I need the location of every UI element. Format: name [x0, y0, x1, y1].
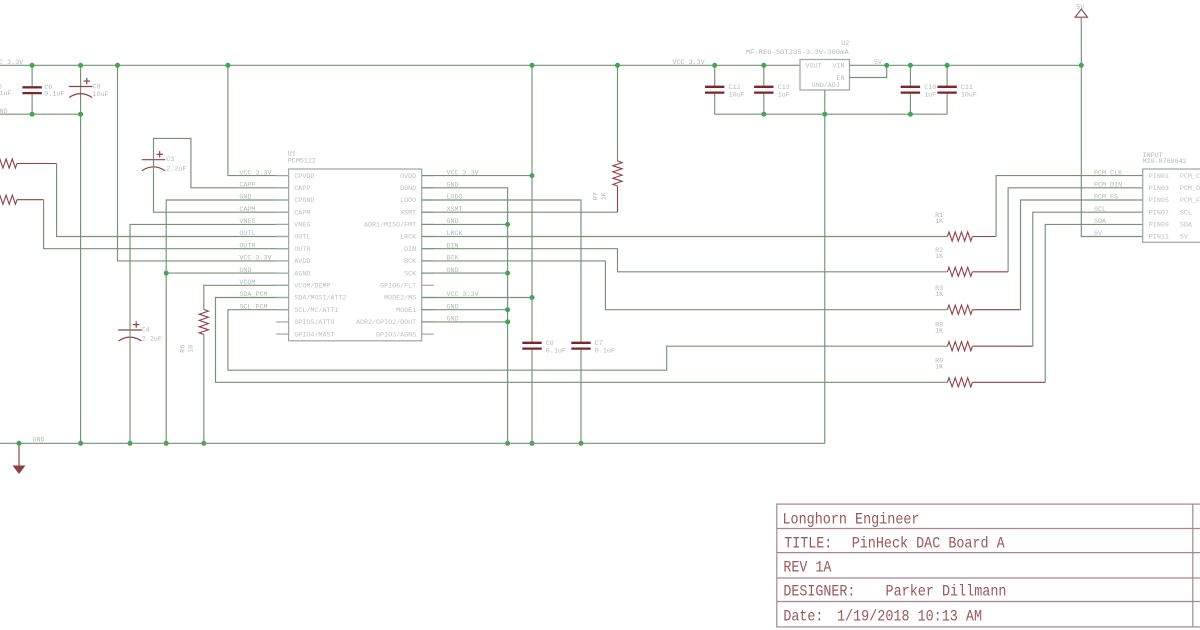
svg-text:CPGND: CPGND — [294, 197, 314, 205]
ground symbol — [18, 443, 20, 465]
svg-text:PCM_FS: PCM_FS — [1180, 197, 1200, 205]
wire EN net — [850, 65, 887, 77]
svg-text:PCM_DIN: PCM_DIN — [1180, 185, 1200, 193]
junction AGND — [164, 271, 169, 276]
wire R9 to connector — [1045, 224, 1143, 382]
wire AVDD VCC tap — [118, 65, 289, 261]
svg-text:AVDD: AVDD — [294, 258, 310, 266]
svg-text:PCM_FS: PCM_FS — [1094, 194, 1118, 202]
wire SCK GND net — [422, 272, 508, 274]
resistor left edge upper (to OUTL) — [0, 159, 17, 168]
svg-text:0.1uF: 0.1uF — [595, 348, 615, 356]
wire 5V down to connector — [1081, 17, 1142, 236]
op-amp U1 PCM5122 box — [289, 169, 422, 341]
svg-text:VOUT: VOUT — [806, 63, 822, 71]
junction OVDD — [530, 173, 535, 178]
svg-text:VCC 3.3V: VCC 3.3V — [673, 59, 705, 67]
svg-text:M20-8760642: M20-8760642 — [1143, 158, 1187, 166]
wire OUTR net — [44, 200, 289, 249]
svg-text:1K: 1K — [601, 192, 609, 200]
svg-text:VNEG: VNEG — [239, 218, 255, 226]
svg-text:PIN01: PIN01 — [1149, 173, 1169, 181]
wire DIN net — [422, 249, 948, 272]
svg-text:PCM_DIN: PCM_DIN — [1094, 182, 1122, 190]
svg-text:CPVDD: CPVDD — [294, 173, 314, 181]
svg-text:PCM_CLK: PCM_CLK — [1180, 173, 1200, 181]
svg-text:0.1uF: 0.1uF — [0, 90, 12, 98]
svg-text:OUTL: OUTL — [239, 230, 255, 238]
svg-text:0.1uF: 0.1uF — [44, 90, 64, 98]
capacitor C12 — [714, 65, 716, 86]
svg-text:CAPM: CAPM — [294, 209, 310, 217]
wire CPGND to GND rail — [166, 200, 288, 443]
junction C6 bottom — [30, 112, 35, 117]
svg-text:DGND: DGND — [400, 185, 416, 193]
resistor left edge lower (to OUTR) — [0, 195, 17, 204]
capacitor C6 — [31, 65, 33, 86]
svg-text:OUTL: OUTL — [294, 234, 310, 242]
voltage regulator U2 box — [800, 60, 850, 91]
svg-text:PinHeck DAC Board A: PinHeck DAC Board A — [852, 535, 1005, 553]
junction C4 rail — [128, 441, 133, 446]
junction regulator GND bus — [822, 112, 827, 117]
wire VCC column with C8 — [531, 65, 533, 342]
capacitor C9 — [80, 65, 82, 443]
svg-text:VCC 3.3V: VCC 3.3V — [239, 255, 271, 263]
svg-text:SCL/MC/ATT1: SCL/MC/ATT1 — [294, 307, 338, 315]
wire CAPM net — [154, 160, 289, 213]
svg-text:PIN11: PIN11 — [1149, 234, 1169, 242]
svg-text:Longhorn Engineer: Longhorn Engineer — [783, 511, 920, 529]
wire R2 to connector — [1008, 188, 1143, 272]
svg-text:CAPM: CAPM — [239, 206, 255, 214]
svg-text:SDA_PCM: SDA_PCM — [239, 291, 267, 299]
svg-text:SCK: SCK — [404, 270, 416, 278]
svg-text:ADR1/MISO/FMT: ADR1/MISO/FMT — [364, 222, 416, 230]
resistor R1 — [947, 232, 972, 241]
svg-text:VNEG: VNEG — [294, 222, 310, 230]
svg-text:5V: 5V — [874, 59, 882, 67]
wire ADR1 GND net — [422, 223, 508, 225]
wire R8 to connector — [1033, 212, 1143, 346]
svg-text:OUTR: OUTR — [294, 246, 310, 254]
svg-text:10: 10 — [187, 345, 195, 353]
wire AGND net — [166, 272, 288, 274]
junction C8 rail — [530, 441, 535, 446]
svg-text:PIN05: PIN05 — [1149, 197, 1169, 205]
svg-text:DESIGNER:: DESIGNER: — [783, 582, 855, 600]
svg-text:VCC 3.3V: VCC 3.3V — [0, 59, 23, 67]
svg-text:GND: GND — [239, 267, 251, 275]
svg-text:PCM5122: PCM5122 — [288, 157, 316, 165]
wire VCC 3.3V top rail — [0, 64, 800, 66]
junction C6 top — [30, 63, 35, 68]
svg-text:2.2uF: 2.2uF — [166, 165, 186, 173]
svg-text:BCK: BCK — [404, 258, 416, 266]
svg-text:VIN: VIN — [832, 63, 844, 71]
capacitor C11 — [946, 65, 948, 86]
junction C7 rail — [579, 441, 584, 446]
junction ground symbol — [17, 441, 22, 446]
svg-text:AGND: AGND — [294, 270, 310, 278]
svg-text:CAPP: CAPP — [294, 185, 310, 193]
svg-text:1K: 1K — [935, 218, 943, 226]
wire XSMT net — [422, 211, 618, 213]
svg-text:XSMT: XSMT — [400, 209, 416, 217]
junction C9 rail — [78, 441, 83, 446]
svg-text:R6: R6 — [180, 345, 188, 353]
svg-text:GPIO3/AGNS: GPIO3/AGNS — [376, 331, 416, 339]
junction CPGND rail — [164, 441, 169, 446]
junction AVDD rail — [115, 63, 120, 68]
svg-text:MODE2/MS: MODE2/MS — [384, 295, 416, 303]
svg-text:TITLE:: TITLE: — [784, 535, 832, 553]
wire regulator GND bus — [715, 113, 947, 115]
svg-text:5V: 5V — [1180, 234, 1188, 242]
wire ADR2 GND net — [422, 321, 508, 323]
resistor R7 pullup — [617, 65, 619, 161]
svg-text:LODO: LODO — [400, 197, 416, 205]
junction CPVDD rail — [225, 63, 230, 68]
svg-text:PIN03: PIN03 — [1149, 185, 1169, 193]
wire OUTL net — [57, 164, 289, 237]
svg-text:SCL: SCL — [1180, 209, 1192, 217]
svg-text:OUTR: OUTR — [239, 242, 255, 250]
svg-text:1K: 1K — [935, 364, 943, 372]
svg-text:PCM_CLK: PCM_CLK — [1094, 169, 1122, 177]
title block frame — [777, 504, 1200, 627]
svg-text:SDA/MOSI/ATT2: SDA/MOSI/ATT2 — [294, 295, 346, 303]
svg-text:SDA: SDA — [1180, 222, 1193, 230]
wire LODO net with C7 — [422, 200, 581, 342]
wire VIN 5V net — [850, 64, 1082, 66]
capacitor C10 — [909, 65, 911, 86]
wire GND bottom rail — [0, 442, 825, 444]
junction C9 GND tee — [78, 112, 83, 117]
svg-text:OVDD: OVDD — [400, 173, 416, 181]
capacitor C7 — [571, 342, 590, 344]
svg-text:ADR2/GPIO2/DOUT: ADR2/GPIO2/DOUT — [356, 319, 416, 327]
svg-text:DIN: DIN — [404, 246, 416, 254]
connector J1 M20-8760642 box — [1143, 169, 1200, 242]
svg-text:1uF: 1uF — [924, 92, 936, 100]
svg-text:PIN09: PIN09 — [1149, 222, 1169, 230]
junction R6 rail — [201, 441, 206, 446]
svg-text:R7: R7 — [593, 192, 601, 200]
capacitor C3 — [142, 159, 166, 161]
svg-text:VCC 3.3V: VCC 3.3V — [239, 169, 271, 177]
svg-text:SDA: SDA — [1094, 218, 1107, 226]
resistor R6 — [199, 310, 208, 335]
wire MODE2 VCC net — [422, 297, 532, 299]
resistor R9 — [947, 378, 972, 387]
svg-text:1uF: 1uF — [778, 92, 790, 100]
capacitor C8 — [522, 342, 541, 344]
svg-text:U2: U2 — [841, 40, 849, 48]
wire BCK net — [422, 261, 948, 310]
svg-text:1K: 1K — [935, 328, 943, 336]
svg-text:CAPP: CAPP — [239, 182, 255, 190]
wire VNEG net — [130, 224, 289, 330]
wire DGND net — [422, 188, 508, 443]
wire MODE1 GND net — [422, 309, 508, 311]
wire LRCK net — [422, 236, 948, 238]
junction VCC column rail top — [530, 63, 535, 68]
svg-text:LRCK: LRCK — [400, 234, 416, 242]
svg-text:GPIO5/ATT0: GPIO5/ATT0 — [294, 319, 334, 327]
svg-text:2.2uF: 2.2uF — [142, 335, 162, 343]
svg-text:SCL: SCL — [1094, 206, 1106, 214]
svg-text:GPIO4/MAST: GPIO4/MAST — [294, 331, 334, 339]
wire GND stub left — [0, 113, 81, 115]
wire CPVDD VCC tap — [228, 65, 289, 175]
junction R7 rail — [615, 63, 620, 68]
wire VCOM net — [204, 285, 289, 309]
svg-text:GPIO6/FLT: GPIO6/FLT — [380, 283, 416, 291]
svg-text:MODE1: MODE1 — [396, 307, 416, 315]
junction EN 5V — [884, 63, 889, 68]
svg-text:1K: 1K — [935, 291, 943, 299]
svg-text:10uF: 10uF — [961, 92, 977, 100]
svg-text:0.1uF: 0.1uF — [546, 348, 566, 356]
junction GND column rail — [505, 441, 510, 446]
capacitor C4 — [118, 329, 142, 331]
wire SDA_PCM net — [216, 298, 948, 383]
resistor R3 — [947, 305, 972, 314]
svg-text:C4: C4 — [142, 326, 150, 334]
svg-text:1K: 1K — [935, 253, 943, 261]
junction 5V rail — [1079, 63, 1084, 68]
svg-text:10uF: 10uF — [729, 92, 745, 100]
svg-text:PIN07: PIN07 — [1149, 209, 1169, 217]
wire R3 to connector — [1021, 200, 1143, 310]
svg-text:GND: GND — [239, 194, 251, 202]
svg-text:SCL_PCM: SCL_PCM — [239, 303, 267, 311]
wire OVDD VCC net — [422, 175, 532, 177]
svg-text:5V: 5V — [1094, 230, 1102, 238]
capacitor C13 — [763, 65, 765, 86]
wire R1 to connector — [996, 176, 1143, 237]
wire CAPP net — [154, 138, 289, 187]
wire regulator GND — [824, 90, 826, 443]
svg-text:Parker Dillmann: Parker Dillmann — [886, 582, 1007, 600]
svg-text:MF-REG-SOT235-3.3V-300mA: MF-REG-SOT235-3.3V-300mA — [746, 49, 850, 57]
junction C9 top — [78, 63, 83, 68]
svg-text:GND/ADJ: GND/ADJ — [812, 82, 840, 90]
svg-text:C3: C3 — [166, 156, 174, 164]
svg-text:1/19/2018 10:13 AM: 1/19/2018 10:13 AM — [837, 608, 982, 626]
svg-text:VCOM/DEMP: VCOM/DEMP — [294, 283, 330, 291]
svg-text:VCOM: VCOM — [239, 279, 255, 287]
svg-text:GND: GND — [33, 436, 45, 444]
svg-text:Date:: Date: — [783, 608, 823, 626]
svg-text:10uF: 10uF — [93, 91, 109, 99]
resistor R2 — [947, 267, 972, 276]
svg-text:REV 1A: REV 1A — [783, 559, 831, 577]
resistor R8 — [947, 342, 972, 351]
wire SCL_PCM net — [228, 310, 948, 371]
